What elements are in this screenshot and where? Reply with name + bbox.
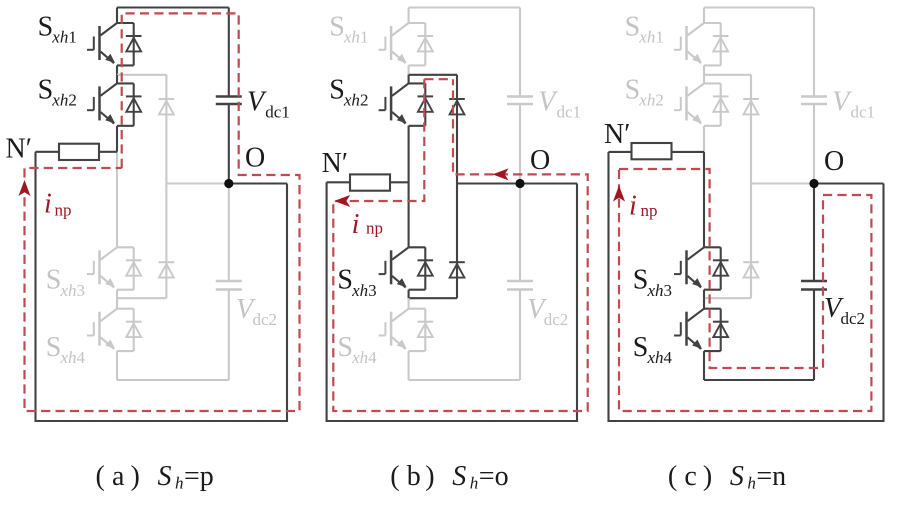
- wire bottom DC- rail (c): [704, 379, 814, 381]
- svg-text:(: (: [668, 461, 677, 492]
- svg-text:S: S: [633, 332, 649, 363]
- diode D3 antiparallel (a): [117, 247, 142, 289]
- svg-text:S: S: [337, 332, 353, 363]
- transistor S_xh4 (a): [87, 309, 118, 352]
- diode D4 antiparallel (b): [409, 309, 434, 351]
- clamp diode D6 column (a): [159, 184, 175, 299]
- svg-text:S: S: [625, 75, 641, 106]
- svg-text:xh1: xh1: [343, 28, 369, 47]
- svg-text:xh1: xh1: [638, 28, 664, 47]
- wire top DC+ rail (c): [704, 6, 814, 8]
- i_np arrow (c): [613, 186, 625, 202]
- svg-text:=n: =n: [756, 461, 786, 492]
- wire S3-A2-S4 leg segment (b): [408, 290, 410, 299]
- svg-text:(: (: [96, 461, 105, 492]
- diode D4 antiparallel (c): [704, 309, 729, 351]
- wire outer loop right/bottom/left (b): [327, 182, 577, 421]
- node A2 clamp tap wire (b): [409, 297, 457, 299]
- diode D4 antiparallel (a): [117, 309, 142, 351]
- svg-text:S: S: [329, 12, 345, 43]
- svg-text:np: np: [641, 201, 658, 220]
- clamp diode D5 column (c): [743, 75, 759, 184]
- svg-text:S: S: [337, 265, 353, 296]
- svg-text:h: h: [175, 474, 184, 493]
- svg-text:xh4: xh4: [351, 348, 377, 367]
- svg-text:dc2: dc2: [253, 310, 278, 329]
- svg-text:S: S: [329, 75, 345, 106]
- wire bottom DC- rail (a): [117, 379, 229, 381]
- svg-text:a: a: [112, 461, 125, 492]
- svg-text:b: b: [407, 461, 421, 492]
- wire outer loop right/bottom/left (a): [36, 152, 288, 421]
- resistor load (c): [632, 143, 672, 159]
- transistor S_xh3 (c): [674, 247, 705, 290]
- svg-text:h: h: [747, 474, 756, 493]
- wire leg bottom segment (c): [703, 351, 705, 380]
- wire S1-A1 leg segment (a): [116, 65, 118, 74]
- transistor S_xh2 (c): [674, 83, 705, 126]
- diode D2 antiparallel (b): [409, 83, 434, 125]
- transistor S_xh1 (c): [674, 23, 705, 66]
- wire leg bottom segment (b): [408, 351, 410, 380]
- svg-text:V: V: [538, 87, 558, 118]
- svg-text:(: (: [390, 461, 399, 492]
- i_np arrow near O (b): [493, 168, 509, 180]
- svg-text:xh2: xh2: [51, 91, 77, 110]
- transistor S_xh3 (b): [379, 247, 410, 290]
- svg-text:N′: N′: [6, 134, 32, 165]
- wire S3-A2-S4 leg segment (c): [703, 290, 705, 299]
- svg-text:xh3: xh3: [647, 281, 673, 300]
- svg-text:xh4: xh4: [60, 348, 86, 367]
- i_np arrow (a): [19, 180, 31, 196]
- wire resistor right lead (b): [390, 181, 409, 183]
- clamp diode D6 column (c): [743, 184, 759, 299]
- wire S3-A2-S4 leg segment (a): [116, 290, 118, 299]
- svg-text:h: h: [470, 474, 479, 493]
- svg-text:S: S: [46, 265, 62, 296]
- wire S2 to output node (a): [116, 126, 118, 152]
- svg-text:S: S: [158, 461, 172, 492]
- wire Vdc1 top lead (b): [519, 8, 521, 97]
- clamp diode D5 column (b): [449, 75, 465, 184]
- transistor S_xh2 (b): [379, 83, 410, 126]
- node O junction dot (a): [224, 179, 233, 188]
- wire Vdc2 top lead to O (c): [813, 184, 815, 282]
- wire Vdc1 bottom lead to O (b): [519, 104, 521, 184]
- wire leg top segment (b): [408, 8, 410, 24]
- wire Vdc2 bottom lead (b): [519, 290, 521, 381]
- svg-text:S: S: [633, 265, 649, 296]
- diode D2 antiparallel (a): [117, 83, 142, 125]
- node O junction dot (b): [515, 179, 524, 188]
- svg-text:i: i: [352, 209, 360, 240]
- diode D1 antiparallel (a): [117, 23, 142, 65]
- wire S1-A1 leg segment (c): [703, 65, 705, 74]
- svg-text:N′: N′: [604, 119, 630, 150]
- clamp diode D5 column (a): [159, 75, 175, 184]
- capacitor Vdc2 (c): [801, 281, 827, 290]
- svg-text:): ): [131, 461, 140, 492]
- svg-text:S: S: [46, 332, 62, 363]
- wire A1-S2 leg segment (b): [408, 75, 410, 84]
- svg-text:dc1: dc1: [851, 103, 876, 122]
- wire resistor left lead / node N' (c): [609, 151, 632, 153]
- wire resistor left lead / node N' (b): [327, 181, 350, 183]
- svg-text:S: S: [730, 461, 744, 492]
- wire Vdc2 bottom lead (c): [813, 290, 815, 381]
- wire neutral rail clamp to O (b): [457, 182, 520, 184]
- wire output node to S3 (a): [116, 152, 118, 248]
- svg-text:=p: =p: [184, 461, 214, 492]
- transistor S_xh3 (a): [87, 247, 118, 290]
- node A2 clamp tap wire (c): [704, 297, 751, 299]
- resistor load (b): [350, 174, 390, 190]
- svg-text:xh1: xh1: [51, 28, 77, 47]
- diode D1 antiparallel (b): [409, 23, 434, 65]
- wire output node to S3 (c): [703, 152, 705, 247]
- wire neutral rail clamp to O (c): [751, 182, 814, 184]
- svg-text:S: S: [38, 75, 54, 106]
- svg-text:O: O: [530, 145, 550, 176]
- svg-text:V: V: [247, 87, 267, 118]
- svg-text:xh2: xh2: [343, 91, 369, 110]
- transistor S_xh1 (a): [87, 23, 118, 66]
- wire A1-S2 leg segment (c): [703, 75, 705, 84]
- svg-text:S: S: [38, 12, 54, 43]
- svg-text:O: O: [824, 146, 844, 177]
- wire Vdc1 bottom lead to O (a): [228, 104, 230, 184]
- node A1 clamp tap wire (b): [409, 74, 457, 76]
- svg-text:N′: N′: [322, 148, 348, 179]
- diode D1 antiparallel (c): [704, 23, 729, 65]
- svg-text:xh2: xh2: [638, 91, 664, 110]
- wire Vdc1 bottom lead to O (c): [813, 104, 815, 184]
- svg-text:xh3: xh3: [351, 281, 377, 300]
- capacitor Vdc2 (b): [507, 281, 533, 290]
- svg-text:i: i: [44, 189, 52, 220]
- i_np red dashed loop (b): [424, 78, 453, 80]
- svg-text:): ): [425, 461, 434, 492]
- svg-text:S: S: [452, 461, 466, 492]
- svg-text:xh3: xh3: [60, 281, 86, 300]
- wire outer loop right/bottom/left (c): [609, 152, 884, 421]
- diode D3 antiparallel (c): [704, 247, 729, 289]
- wire resistor right lead (c): [672, 151, 705, 153]
- capacitor Vdc1 (a): [216, 97, 242, 105]
- transistor S_xh4 (b): [379, 309, 410, 352]
- wire S2 to output node (b): [408, 126, 410, 248]
- clamp diode D6 column (b): [449, 184, 465, 299]
- wire leg top segment (a): [116, 8, 118, 24]
- wire resistor left lead / node N' (a): [36, 151, 60, 153]
- svg-text:i: i: [629, 191, 637, 222]
- wire Vdc1 top lead (a): [228, 8, 230, 97]
- svg-text:dc1: dc1: [557, 103, 582, 122]
- transistor S_xh1 (b): [379, 23, 410, 66]
- wire neutral rail clamp to O (a): [166, 182, 228, 184]
- wire resistor right lead (a): [99, 151, 117, 153]
- transistor S_xh2 (a): [87, 83, 118, 126]
- wire Vdc2 top lead to O (b): [519, 184, 521, 282]
- wire O to outer loop (b): [520, 182, 577, 184]
- svg-text:dc2: dc2: [544, 310, 569, 329]
- svg-text:O: O: [245, 143, 265, 174]
- svg-text:): ): [703, 461, 712, 492]
- diode D3 antiparallel (b): [409, 247, 434, 289]
- wire leg top segment (c): [703, 8, 705, 24]
- capacitor Vdc1 (c): [801, 97, 827, 105]
- capacitor Vdc2 (a): [216, 281, 242, 290]
- node A2 clamp tap wire (a): [117, 297, 166, 299]
- wire leg bottom segment (a): [116, 351, 118, 380]
- wire S2 to output node (c): [703, 126, 705, 152]
- wire bottom DC- rail (b): [409, 379, 520, 381]
- svg-text:dc1: dc1: [265, 103, 290, 122]
- svg-text:dc2: dc2: [841, 309, 866, 328]
- node O junction dot (c): [809, 179, 818, 188]
- wire O to outer loop (a): [229, 182, 287, 184]
- svg-text:S: S: [625, 12, 641, 43]
- transistor S_xh4 (c): [674, 309, 705, 352]
- svg-text:c: c: [684, 461, 696, 492]
- svg-text:np: np: [366, 219, 383, 238]
- i_np arrow near N' (b): [334, 195, 350, 207]
- capacitor Vdc1 (b): [507, 97, 533, 105]
- i_np red dashed loop (a): [25, 13, 300, 411]
- wire top DC+ rail (a): [117, 6, 229, 8]
- wire top DC+ rail (b): [409, 6, 520, 8]
- wire Vdc1 top lead (c): [813, 8, 815, 97]
- svg-text:np: np: [55, 201, 72, 220]
- node A1 clamp tap wire (a): [117, 74, 166, 76]
- i_np red dashed loop (c): [619, 169, 871, 411]
- node A1 clamp tap wire (c): [704, 74, 751, 76]
- svg-text:xh4: xh4: [647, 348, 673, 367]
- wire A1-S2 leg segment (a): [116, 75, 118, 84]
- wire Vdc2 bottom lead (a): [228, 290, 230, 381]
- wire Vdc2 top lead to O (a): [228, 184, 230, 282]
- diode D2 antiparallel (c): [704, 83, 729, 125]
- svg-text:V: V: [832, 87, 852, 118]
- resistor load (a): [59, 144, 99, 160]
- svg-text:=o: =o: [479, 461, 509, 492]
- wire S1-A1 leg segment (b): [408, 65, 410, 74]
- wire O to outer loop (c): [814, 182, 884, 184]
